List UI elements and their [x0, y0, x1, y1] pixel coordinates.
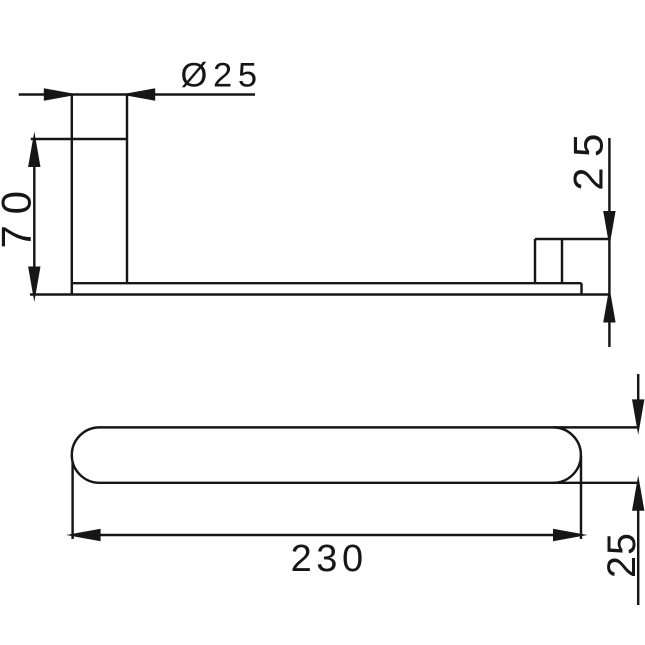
- svg-text:25: 25: [600, 533, 644, 578]
- svg-text:Ø25: Ø25: [181, 57, 258, 95]
- svg-text:25: 25: [565, 134, 612, 191]
- svg-text:230: 230: [291, 538, 364, 580]
